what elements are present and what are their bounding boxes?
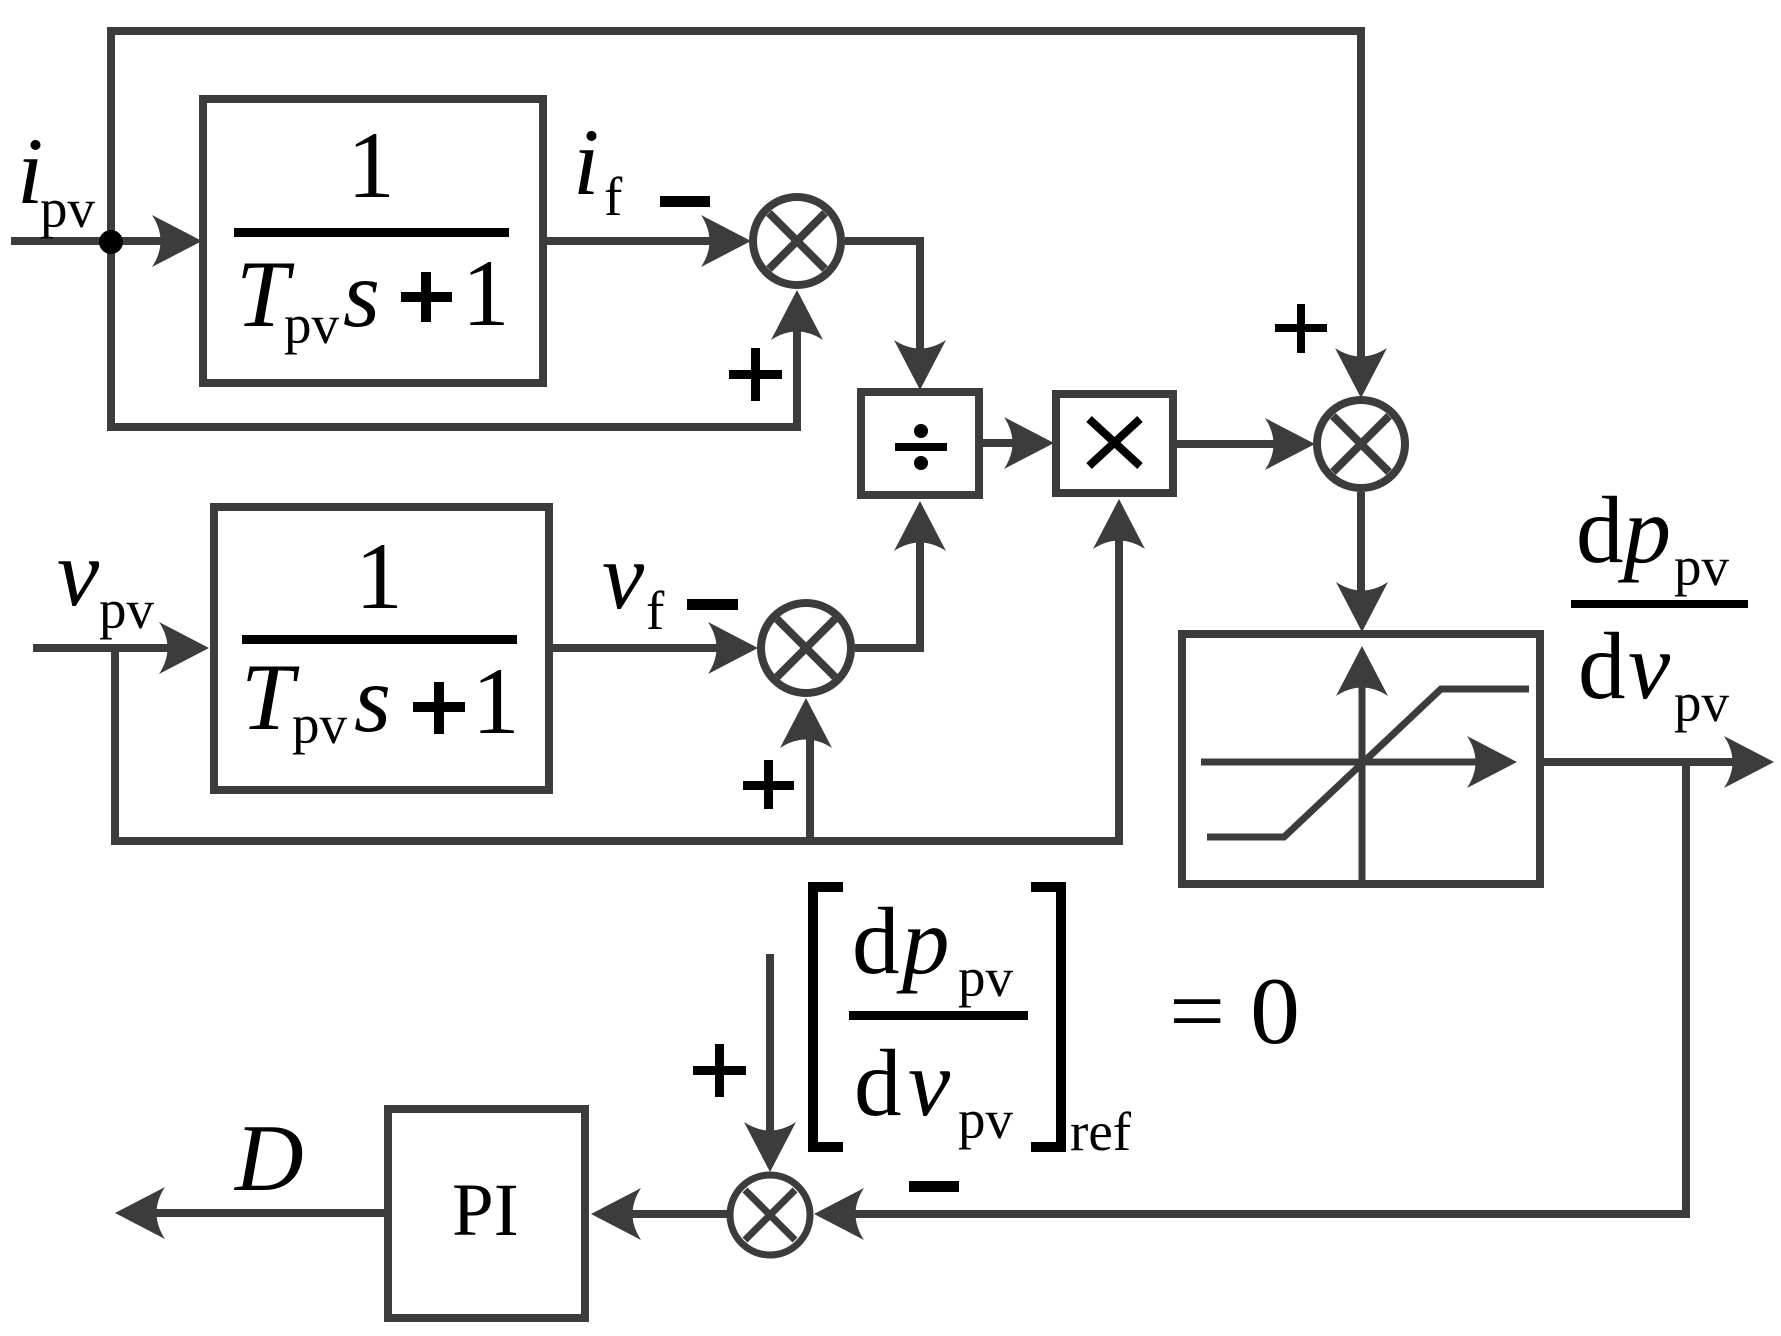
svg-text:d: d bbox=[852, 888, 900, 994]
svg-text:pv: pv bbox=[40, 178, 96, 239]
multiplier block bbox=[1056, 394, 1173, 493]
wire vpv input bbox=[33, 644, 179, 652]
svg-text:pv: pv bbox=[1674, 672, 1730, 733]
plus sign sum2 bbox=[1275, 304, 1327, 353]
summing junction sum1 bbox=[753, 197, 841, 285]
plus sign sum1 bbox=[729, 348, 782, 401]
wire sum2 to saturation bbox=[1357, 492, 1365, 602]
wire vpv feedforward to multiplier bottom bbox=[115, 529, 1119, 841]
arrowhead plus into sum4 bbox=[780, 698, 832, 748]
svg-text:ref: ref bbox=[1070, 1101, 1132, 1162]
wire divider output bbox=[979, 439, 1024, 447]
divider block bbox=[861, 392, 979, 495]
svg-text:pv: pv bbox=[958, 947, 1014, 1008]
block 2 transfer function 1/(Tpv s+1) bbox=[214, 507, 549, 790]
bracket ref expression bbox=[813, 887, 843, 1147]
minus sign sum3 bbox=[909, 1181, 959, 1192]
arrowhead saturation vertical axis bbox=[1336, 646, 1388, 696]
svg-text:f: f bbox=[604, 166, 623, 227]
wire PI output D bbox=[145, 1209, 388, 1217]
wire sum3 to PI bbox=[621, 1210, 727, 1218]
wire block2 output vf bbox=[549, 644, 728, 652]
wire ref stub into sum3 bbox=[766, 954, 774, 1142]
wire ipv input bbox=[11, 237, 172, 245]
svg-text:1: 1 bbox=[462, 240, 510, 346]
wire saturation output bbox=[1540, 758, 1744, 766]
svg-text:PI: PI bbox=[452, 1169, 519, 1252]
arrowhead into saturation top bbox=[1336, 582, 1388, 632]
wire ipv top feedforward to sum2 bbox=[111, 31, 1361, 368]
svg-text:pv: pv bbox=[292, 694, 348, 755]
wire vpv branch to sum4 plus bbox=[806, 727, 814, 841]
wire ipv lower feedforward to sum1 plus bbox=[111, 241, 797, 427]
wire multiplier output bbox=[1173, 440, 1285, 448]
svg-text:v: v bbox=[57, 520, 100, 626]
arrowhead saturation horizontal axis bbox=[1467, 736, 1517, 788]
summing junction sum4 bbox=[761, 603, 851, 693]
minus sign sum4 bbox=[687, 599, 738, 610]
wire sum4 to divider bottom bbox=[855, 531, 920, 648]
svg-text:1: 1 bbox=[355, 523, 403, 629]
plus sign sum4 bbox=[743, 760, 794, 809]
saturation block internals bbox=[1201, 676, 1529, 880]
arrowhead plus into sum2 top bbox=[1335, 348, 1387, 398]
svg-text:s: s bbox=[343, 241, 380, 347]
summing junction sum2 bbox=[1317, 400, 1405, 488]
svg-text:pv: pv bbox=[284, 294, 340, 355]
svg-text:1: 1 bbox=[347, 112, 395, 218]
wire block1 output if bbox=[543, 237, 721, 245]
node ipv branch dot bbox=[99, 230, 123, 254]
svg-text:v: v bbox=[1628, 613, 1671, 719]
arrowhead ref into sum3 top bbox=[744, 1122, 796, 1172]
svg-text:i: i bbox=[573, 109, 599, 215]
saturation block bbox=[1182, 634, 1540, 884]
svg-text:dp: dp bbox=[1576, 477, 1671, 583]
arrowhead into divider bottom bbox=[894, 501, 946, 551]
arrowhead plus into sum1 bbox=[771, 290, 823, 340]
arrowhead output dp/dv bbox=[1724, 736, 1774, 788]
arrowhead into block2 bbox=[159, 622, 209, 674]
svg-text:f: f bbox=[646, 580, 665, 641]
plus sign sum3 bbox=[693, 1044, 746, 1097]
svg-text:1: 1 bbox=[472, 648, 520, 754]
svg-text:pv: pv bbox=[1674, 536, 1730, 597]
minus sign sum1 bbox=[660, 196, 710, 207]
arrowhead into sum2 left bbox=[1265, 418, 1315, 470]
svg-text:p: p bbox=[896, 888, 950, 994]
arrowhead if into sum1 bbox=[701, 215, 751, 267]
PI block bbox=[388, 1109, 585, 1318]
svg-text:pv: pv bbox=[958, 1089, 1014, 1150]
arrowhead into divider top bbox=[894, 340, 946, 390]
svg-text:s: s bbox=[354, 646, 391, 752]
arrowhead vf into sum4 bbox=[708, 622, 758, 674]
arrowhead into PI bbox=[591, 1188, 641, 1240]
summing junction sum3 bbox=[730, 1175, 810, 1255]
arrowhead into multiplier bottom bbox=[1093, 499, 1145, 549]
arrowhead into block1 bbox=[152, 215, 202, 267]
svg-text:D: D bbox=[233, 1105, 304, 1211]
arrowhead feedback into sum3 right bbox=[814, 1188, 864, 1240]
wire feedback down and left to sum3 bbox=[844, 762, 1686, 1214]
block 1 transfer function 1/(Tpv s+1) bbox=[203, 99, 543, 383]
svg-text:v: v bbox=[908, 1030, 951, 1136]
svg-text:= 0: = 0 bbox=[1169, 958, 1300, 1064]
svg-text:v: v bbox=[602, 523, 645, 629]
multiplier symbol bbox=[1089, 419, 1140, 466]
svg-text:d: d bbox=[1578, 613, 1626, 719]
arrowhead into multiplier left bbox=[1004, 417, 1054, 469]
svg-text:pv: pv bbox=[99, 579, 155, 640]
arrowhead output D bbox=[115, 1187, 165, 1239]
divider symbol bbox=[895, 424, 947, 470]
svg-text:d: d bbox=[854, 1030, 902, 1136]
wire sum1 to divider bbox=[845, 241, 920, 360]
